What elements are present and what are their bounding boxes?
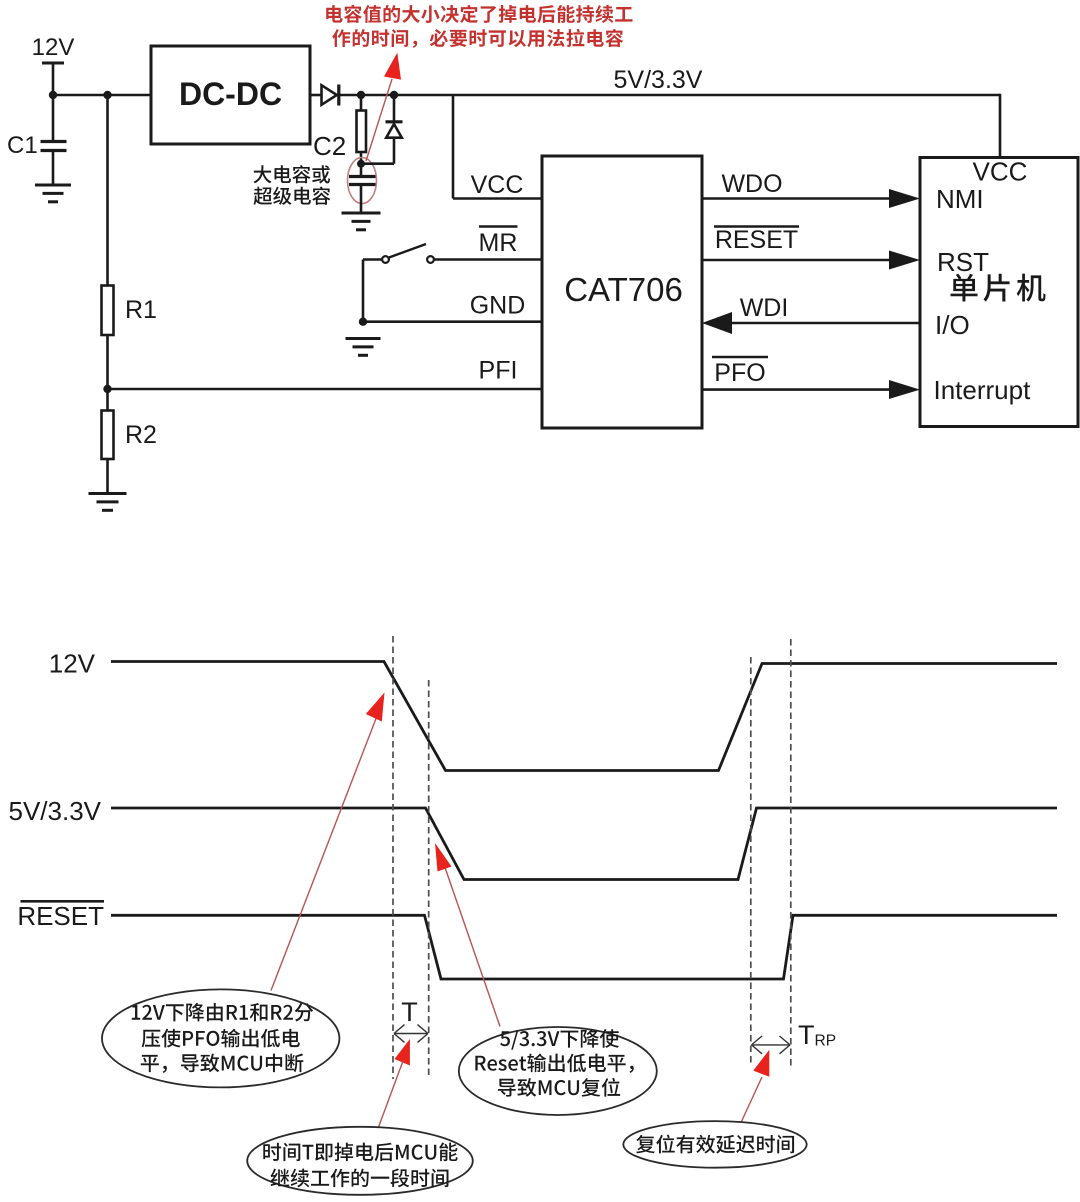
wire PFI pin bbox=[108, 388, 543, 391]
callout ellipse T note bbox=[247, 1127, 473, 1195]
wire switch to ground bbox=[363, 258, 383, 261]
red arrow to TRP note bbox=[753, 1050, 769, 1077]
wire RESET bbox=[702, 259, 891, 262]
manual reset switch bbox=[382, 256, 389, 263]
svg-text:CAT706: CAT706 bbox=[564, 271, 683, 308]
supercap note line1 bbox=[253, 165, 330, 183]
junction dot C1 tap bbox=[49, 91, 57, 99]
svg-text:5V/3.3V: 5V/3.3V bbox=[8, 796, 101, 826]
reset note line2 bbox=[475, 1054, 633, 1073]
capacitor C1 bottom lead bbox=[52, 151, 55, 185]
supercap bottom lead bbox=[360, 186, 363, 214]
svg-text:NMI: NMI bbox=[936, 184, 984, 214]
callout ellipse PFO note bbox=[102, 989, 339, 1087]
red note line2 bbox=[332, 29, 623, 48]
wire 5V rail drop to MCU VCC bbox=[999, 94, 1002, 159]
arrow WDI into CAT706 bbox=[702, 312, 732, 334]
svg-text:VCC: VCC bbox=[471, 171, 524, 199]
red leader line to supercap note bbox=[366, 79, 392, 161]
wire R1 to PFI node bbox=[106, 335, 109, 389]
waveform 5V/3.3V bbox=[111, 808, 1057, 880]
junction dot backup diode branch bbox=[390, 91, 398, 99]
wire R2 to ground bbox=[106, 459, 109, 494]
junction dot C2 branch bbox=[357, 91, 365, 99]
capacitor C1 top lead bbox=[52, 95, 55, 141]
DC-DC converter block bbox=[151, 46, 310, 144]
dashed marker 5V fall bbox=[428, 680, 430, 1079]
svg-text:PFI: PFI bbox=[479, 357, 518, 385]
PFO note line1 bbox=[132, 1003, 313, 1022]
arrow RESET into RST bbox=[889, 251, 920, 270]
svg-text:Interrupt: Interrupt bbox=[934, 375, 1032, 405]
svg-text:5V/3.3V: 5V/3.3V bbox=[614, 66, 703, 94]
red arrow to T note bbox=[395, 1039, 410, 1066]
wire PFO bbox=[702, 388, 891, 391]
resistor charge limit above C2 bbox=[360, 95, 363, 111]
svg-text:C1: C1 bbox=[7, 132, 38, 159]
resistor R2 bbox=[102, 411, 114, 460]
callout ellipse reset note bbox=[459, 1027, 657, 1115]
interval double arrow T bbox=[394, 1033, 428, 1035]
svg-text:DC-DC: DC-DC bbox=[179, 76, 282, 112]
svg-text:C2: C2 bbox=[313, 131, 346, 161]
wire PFI node to R2 bbox=[106, 389, 109, 411]
MCU block bbox=[920, 158, 1078, 427]
wire backup diode to rail bbox=[393, 95, 396, 122]
junction dot switch ground bbox=[359, 318, 367, 326]
dashed marker RESET recover bbox=[790, 639, 792, 1067]
ground below R2 bbox=[89, 492, 127, 495]
dashed marker 12V fall bbox=[392, 636, 394, 1079]
wire 12V input rail bbox=[52, 94, 151, 97]
ground below supercap bbox=[342, 212, 381, 215]
wire GND pin bbox=[363, 320, 542, 323]
svg-text:12V: 12V bbox=[32, 34, 75, 61]
PFO note line3 bbox=[141, 1054, 304, 1073]
red leader line TRP note bbox=[741, 1077, 762, 1123]
waveform RESET bbox=[111, 915, 1057, 979]
svg-text:RP: RP bbox=[815, 1033, 837, 1050]
arrow PFO into Interrupt bbox=[889, 380, 920, 399]
MCU name 单片机 bbox=[951, 274, 1046, 302]
TRP note text bbox=[636, 1135, 794, 1154]
red arrow to capacitor note bbox=[384, 53, 401, 80]
reset note line3 bbox=[498, 1078, 620, 1097]
wire supercap to backup diode bbox=[361, 162, 394, 165]
T note line1 bbox=[263, 1143, 457, 1162]
dashed marker 5V recover bbox=[750, 657, 752, 1067]
signal label RESET overline bbox=[714, 225, 799, 228]
svg-text:MR: MR bbox=[479, 229, 518, 257]
red leader line PFO note bbox=[271, 716, 377, 991]
red arrow to 5V fall bbox=[435, 843, 452, 872]
IC CAT706 block bbox=[542, 156, 702, 428]
interval double arrow TRP bbox=[752, 1044, 791, 1046]
callout ellipse TRP note bbox=[623, 1121, 806, 1168]
junction dot PFI divider bbox=[103, 385, 111, 393]
supercap note line2 bbox=[254, 187, 331, 205]
pin label MR overline bbox=[479, 225, 518, 228]
wire WDI bbox=[730, 322, 920, 325]
wire diode to 5V rail bbox=[337, 94, 1000, 97]
PFO note line2 bbox=[142, 1029, 300, 1048]
svg-text:RESET: RESET bbox=[715, 226, 798, 254]
backup diode D2 bbox=[386, 124, 402, 138]
red leader line T note bbox=[378, 1061, 403, 1129]
ground below switch bbox=[346, 337, 381, 340]
signal label PFO overline bbox=[712, 356, 768, 359]
diode D1 bbox=[322, 85, 337, 105]
svg-text:R2: R2 bbox=[125, 421, 157, 449]
wire MR pin bbox=[431, 258, 543, 261]
junction dot R1 tap bbox=[103, 91, 111, 99]
ground below C1 bbox=[35, 184, 71, 187]
capacitor C1 plates bbox=[41, 140, 67, 143]
svg-text:PFO: PFO bbox=[714, 359, 765, 387]
red arrow to 12V fall bbox=[366, 693, 385, 722]
svg-text:WDO: WDO bbox=[721, 170, 782, 198]
red note line1 bbox=[326, 5, 632, 23]
wire R1 tap down bbox=[106, 95, 109, 286]
junction dot supercap top bbox=[357, 160, 365, 168]
svg-text:VCC: VCC bbox=[973, 157, 1028, 187]
svg-text:T: T bbox=[401, 997, 418, 1027]
waveform 12V bbox=[111, 662, 1057, 771]
svg-text:I/O: I/O bbox=[935, 310, 970, 340]
svg-text:RESET: RESET bbox=[17, 901, 104, 931]
svg-text:12V: 12V bbox=[49, 649, 96, 679]
svg-text:WDI: WDI bbox=[740, 294, 789, 322]
reset note line1 bbox=[500, 1029, 619, 1050]
svg-text:R1: R1 bbox=[125, 296, 157, 324]
svg-text:T: T bbox=[798, 1020, 815, 1050]
12V supply terminal bar bbox=[42, 62, 64, 65]
supercap highlight ellipse bbox=[348, 158, 377, 204]
T note line2 bbox=[271, 1168, 449, 1187]
arrow WDO into NMI bbox=[889, 189, 920, 208]
wire WDO bbox=[702, 197, 891, 200]
wire VCC branch bbox=[452, 95, 455, 199]
wire 12V terminal to rail bbox=[52, 63, 55, 95]
red leader line reset note bbox=[440, 853, 500, 1027]
svg-text:RST: RST bbox=[937, 247, 989, 277]
supercap plates bbox=[349, 175, 376, 178]
wire DC-DC output bbox=[310, 94, 322, 97]
resistor R1 bbox=[102, 286, 114, 336]
svg-text:GND: GND bbox=[470, 292, 526, 320]
waveform label RESET overline bbox=[21, 900, 105, 903]
